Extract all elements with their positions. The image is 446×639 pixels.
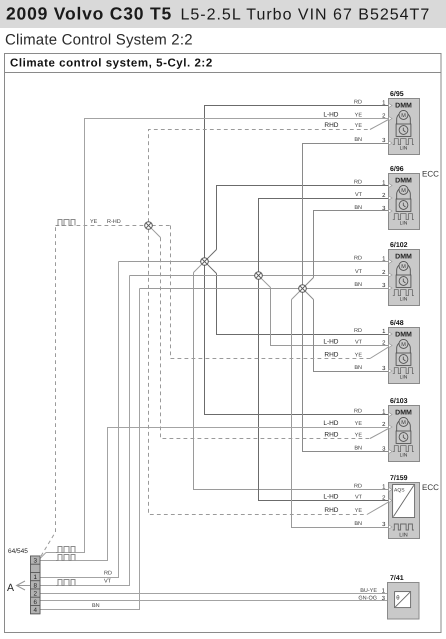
wire VT vertical 6/96 pin2 down to 7/159 pin2 xyxy=(259,199,389,501)
wire YE LHD to 6/95 pin2 from 64/545 pin3 xyxy=(40,119,389,559)
svg-text:1: 1 xyxy=(33,574,37,581)
svg-text:L-HD: L-HD xyxy=(323,420,338,427)
svg-text:RD: RD xyxy=(354,328,362,334)
junction BN splice xyxy=(299,285,307,293)
svg-text:8: 8 xyxy=(33,582,37,589)
svg-text:VT: VT xyxy=(355,269,363,275)
junction RHD dashed splice xyxy=(145,222,153,230)
svg-text:L-HD: L-HD xyxy=(323,494,338,501)
svg-text:RD: RD xyxy=(354,483,362,489)
svg-text:YE: YE xyxy=(355,353,363,359)
connector 7/159 AQS sensor ECC xyxy=(323,474,439,539)
svg-text:2: 2 xyxy=(33,591,37,598)
svg-text:RD: RD xyxy=(104,571,112,577)
svg-text:YE: YE xyxy=(90,219,98,225)
connection arrow A xyxy=(7,581,31,594)
svg-text:RHD: RHD xyxy=(324,507,338,514)
wire RHD YE dashed distribution row xyxy=(56,225,171,227)
svg-text:RD: RD xyxy=(354,255,362,261)
svg-text:BN: BN xyxy=(354,137,362,143)
svg-text:BN: BN xyxy=(354,445,362,451)
connector 6/103 DMM xyxy=(323,397,419,462)
wire RD branch to 7/159 pin1 xyxy=(194,264,389,489)
svg-text:3: 3 xyxy=(33,558,37,565)
svg-text:YE: YE xyxy=(355,421,363,427)
svg-text:L-HD: L-HD xyxy=(323,112,338,119)
svg-text:Climate Control System 2:2: Climate Control System 2:2 xyxy=(5,32,193,49)
svg-text:ECC: ECC xyxy=(422,483,439,492)
svg-text:YE: YE xyxy=(355,508,363,514)
svg-text:6/103: 6/103 xyxy=(390,397,408,405)
svg-text:R-HD: R-HD xyxy=(107,219,121,225)
svg-text:BN: BN xyxy=(354,205,362,211)
svg-text:YE: YE xyxy=(355,433,363,439)
label R-HD on RHD row xyxy=(107,219,121,225)
svg-text:RHD: RHD xyxy=(324,432,338,439)
wire VT row to 6/102 pin2 through junction xyxy=(130,275,389,277)
title bar xyxy=(5,72,442,74)
svg-text:YE: YE xyxy=(355,113,363,119)
connector 6/95 DMM xyxy=(323,90,419,155)
wire BN branch to 6/48 pin3 xyxy=(305,291,389,372)
wire RHD YE dashed to 6/95 pin2 xyxy=(149,130,371,223)
svg-text:A: A xyxy=(7,582,14,594)
connector 6/96 DMM ECC xyxy=(354,165,439,230)
square wave symbol on YE row B xyxy=(56,555,75,561)
wire RD row to 6/102 pin1 through junction xyxy=(119,261,389,263)
wire VT branch to 6/48 pin2 xyxy=(261,278,389,345)
svg-text:L-HD: L-HD xyxy=(323,339,338,346)
svg-text:6/96: 6/96 xyxy=(390,165,404,173)
wire RHD YE dashed to 6/48 pin2 xyxy=(171,226,371,359)
svg-text:RD: RD xyxy=(354,179,362,185)
junction RD splice xyxy=(201,258,209,266)
svg-text:64/545: 64/545 xyxy=(8,548,28,555)
wire RHD YE dashed to 7/159 pin2 xyxy=(149,229,368,515)
svg-text:RHD: RHD xyxy=(324,352,338,359)
svg-text:RHD: RHD xyxy=(324,122,338,129)
svg-text:6/95: 6/95 xyxy=(390,90,404,98)
connector 6/102 DMM xyxy=(354,241,419,306)
wire BN branch to 7/159 pin3 xyxy=(292,291,389,528)
square wave symbol on VT row xyxy=(56,580,75,586)
svg-text:7/159: 7/159 xyxy=(390,474,408,482)
svg-text:ECC: ECC xyxy=(422,170,439,179)
wire RD bus: 64/545 pin1 up left column xyxy=(40,262,119,578)
svg-text:6/102: 6/102 xyxy=(390,241,408,249)
connector 64/545 xyxy=(8,548,40,614)
label YE on RHD row xyxy=(90,219,98,225)
svg-text:YE: YE xyxy=(355,123,363,129)
svg-text:2009 Volvo C30 T5 L5-2.5L Turb: 2009 Volvo C30 T5 L5-2.5L Turbo VIN 67 B… xyxy=(6,4,430,24)
square wave symbol on RHD row xyxy=(56,220,75,226)
svg-text:RD: RD xyxy=(354,408,362,414)
svg-text:LIN: LIN xyxy=(399,533,408,539)
wire BN bus: 64/545 pin4 up left column xyxy=(40,289,140,610)
wire RD branch to 6/48 pin1 xyxy=(207,264,388,334)
svg-text:VT: VT xyxy=(104,579,112,585)
wire BN row to 6/102 pin3 through junction xyxy=(140,288,389,290)
wire GN-OG 64/545 pin5 to 7/41 pin3 xyxy=(40,600,388,602)
svg-text:BN: BN xyxy=(354,521,362,527)
svg-text:Climate control system, 5-Cyl.: Climate control system, 5-Cyl. 2:2 xyxy=(10,58,213,70)
svg-text:4: 4 xyxy=(33,607,37,614)
svg-text:RD: RD xyxy=(354,99,362,105)
svg-text:6/48: 6/48 xyxy=(390,319,404,327)
svg-text:GN-OG: GN-OG xyxy=(358,595,377,601)
connector 7/41 temperature sensor xyxy=(358,574,419,619)
connector 6/48 DMM xyxy=(323,319,419,384)
wire RHD YE dashed riser from 64/545 pin3 xyxy=(41,226,56,557)
svg-text:VT: VT xyxy=(355,340,363,346)
wire YE LHD to 6/103 pin2 from 64/545 pin3 xyxy=(40,428,389,561)
wire RHD YE dashed to 6/103 pin2 xyxy=(151,228,160,237)
svg-text:VT: VT xyxy=(355,192,363,198)
svg-text:BN: BN xyxy=(354,282,362,288)
header bar xyxy=(0,0,446,28)
svg-text:VT: VT xyxy=(355,495,363,501)
wire BN branch to 6/96 pin3 xyxy=(305,211,389,287)
svg-text:BN: BN xyxy=(92,603,100,609)
svg-text:AQS: AQS xyxy=(394,488,405,494)
wire RD branch to 6/96 pin1 xyxy=(207,186,388,259)
wire VT bus: 64/545 pin8 up left column xyxy=(40,276,130,586)
svg-text:7/41: 7/41 xyxy=(390,574,404,582)
square wave symbol on YE row A xyxy=(56,547,75,553)
svg-text:BN: BN xyxy=(354,365,362,371)
wire BN vertical 6/95 pin3 down to 6/103 pin3 xyxy=(303,144,389,452)
wire RD main vertical to 6/95 pin1 and 6/103 pin1 xyxy=(205,106,389,415)
svg-text:6: 6 xyxy=(33,599,37,606)
wire BU-YE 64/545 pin2 to 7/41 pin1 xyxy=(40,593,388,595)
svg-text:BU-YE: BU-YE xyxy=(360,588,377,594)
junction VT splice xyxy=(255,272,263,280)
